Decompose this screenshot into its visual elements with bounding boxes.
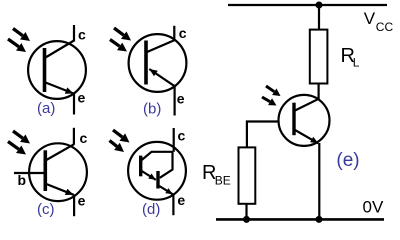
svg-text:BE: BE <box>215 174 231 188</box>
svg-text:0V: 0V <box>363 198 384 217</box>
svg-text:c: c <box>80 130 88 146</box>
svg-text:c: c <box>179 25 187 41</box>
svg-text:e: e <box>177 91 185 107</box>
svg-text:c: c <box>178 128 186 144</box>
svg-text:(e): (e) <box>336 150 359 171</box>
svg-text:CC: CC <box>376 20 394 34</box>
svg-text:(c): (c) <box>37 201 55 218</box>
svg-text:c: c <box>78 27 86 43</box>
svg-text:e: e <box>177 192 185 208</box>
svg-text:V: V <box>364 9 376 28</box>
svg-text:b: b <box>18 172 27 188</box>
svg-text:e: e <box>78 193 86 209</box>
svg-text:L: L <box>353 56 360 70</box>
svg-text:(b): (b) <box>143 101 161 118</box>
svg-text:e: e <box>78 90 86 106</box>
svg-text:(d): (d) <box>142 201 160 218</box>
svg-text:(a): (a) <box>37 100 55 117</box>
